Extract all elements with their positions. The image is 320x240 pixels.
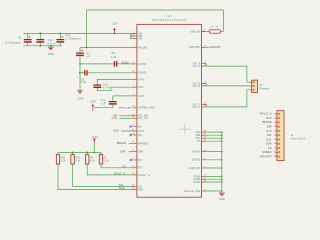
svg-text:PGND: PGND	[194, 176, 201, 178]
svg-text:SOC: SOC	[195, 138, 200, 140]
wire VIN pins link	[130, 33, 132, 38]
pin 4 GND_BK	[202, 167, 206, 169]
wire	[205, 64, 207, 67]
wire VCP	[113, 95, 134, 97]
junction	[221, 178, 223, 180]
junction	[221, 167, 223, 169]
wire	[205, 85, 206, 87]
svg-text:BRAKE: BRAKE	[138, 141, 148, 145]
svg-text:MCF8316A1VRGFR: MCF8316A1VRGFR	[152, 18, 187, 22]
capacitor C31	[56, 39, 64, 40]
resistor R6	[86, 155, 89, 164]
wire	[59, 33, 61, 39]
junction	[221, 131, 223, 133]
ground	[219, 193, 225, 195]
wire	[112, 96, 114, 101]
wire to gnd rail	[205, 140, 222, 142]
pin 25 FS	[133, 167, 137, 169]
wire CPL	[97, 87, 133, 91]
pin 7 SCL	[275, 139, 278, 141]
wire	[131, 35, 134, 37]
pin 36 AGND	[202, 151, 206, 153]
svg-text:uF: uF	[87, 54, 90, 58]
capacitor C10	[93, 84, 101, 85]
pin 8 SDA	[275, 143, 278, 145]
svg-text:GND: GND	[78, 96, 84, 100]
svg-text:+15V: +15V	[111, 22, 118, 26]
junction	[221, 137, 223, 139]
pin 41 Thermal_Pad	[202, 190, 206, 192]
pin 5 CLK	[275, 130, 278, 132]
pin 34 DIR	[133, 151, 137, 153]
pin 10 VIN	[133, 35, 137, 37]
wire OUT_C	[206, 90, 250, 107]
wire	[79, 48, 81, 53]
pin 11 DRVOFF	[275, 156, 278, 158]
wire	[131, 37, 134, 39]
pin 31 BRAKE	[133, 142, 137, 144]
svg-text:SOX: SOX	[113, 129, 119, 133]
wire CPH	[97, 80, 133, 85]
svg-text:EXT_CLK: EXT_CLK	[138, 118, 149, 120]
pin 3 FB_BK	[133, 47, 137, 49]
wire to gnd rail	[205, 167, 222, 169]
resistor R5	[99, 155, 102, 164]
pin 7 CPH	[133, 79, 137, 81]
svg-text:5.1k: 5.1k	[104, 159, 110, 163]
svg-text:FS: FS	[122, 164, 126, 168]
wire C11 to +15V	[93, 105, 113, 108]
wire	[86, 152, 88, 154]
pin 40 FAULT_A	[133, 174, 137, 176]
wire DRVOFF	[205, 46, 209, 48]
svg-text:AVDD: AVDD	[138, 62, 146, 66]
wire	[205, 63, 206, 65]
pin 3 BRAKE	[275, 121, 278, 123]
wire OUT_A	[206, 66, 250, 82]
pin 11 OUT_A	[202, 63, 206, 65]
svg-text:OUT_C: OUT_C	[192, 107, 200, 109]
svg-text:DRVOFF: DRVOFF	[260, 154, 272, 158]
pin 38 SDA	[133, 189, 137, 191]
junction	[50, 45, 52, 47]
wire	[39, 43, 41, 46]
pin 16 OUT_B	[202, 82, 206, 84]
capacitor C7	[76, 53, 84, 54]
pin 39 SCL	[133, 185, 137, 187]
wire to gnd rail	[205, 151, 222, 153]
wire	[205, 83, 207, 86]
wire R11 to IC	[58, 164, 133, 190]
svg-text:+15V: +15V	[89, 99, 96, 103]
junction	[221, 190, 223, 192]
svg-text:Thermal_Pad: Thermal_Pad	[183, 189, 200, 193]
pin 37 NC	[202, 140, 206, 142]
svg-text:1 uF: 1 uF	[100, 101, 106, 105]
wire	[93, 143, 95, 152]
pin 32 EXT_WD	[133, 115, 137, 117]
svg-text:PGND: PGND	[194, 179, 201, 181]
junction	[39, 33, 41, 35]
wire buck right	[223, 10, 225, 32]
junction	[79, 72, 81, 74]
pin 17 OUT_B	[202, 85, 206, 87]
wire to gnd rail	[205, 137, 222, 139]
capacitor C8	[114, 61, 115, 66]
wire	[72, 152, 74, 154]
junction	[221, 151, 223, 153]
svg-text:BRAKE: BRAKE	[117, 141, 127, 145]
connector J5 Phoenix	[252, 80, 258, 93]
svg-text:Phoenix: Phoenix	[260, 87, 270, 91]
wire OUT_B	[206, 85, 250, 87]
pin 6 CPL	[133, 86, 137, 88]
power +15V down	[92, 108, 94, 111]
no-connect	[130, 159, 132, 161]
svg-text:NC: NC	[197, 141, 201, 143]
svg-text:OUT_A: OUT_A	[193, 65, 201, 68]
pin 6 WD	[275, 134, 278, 136]
junction	[221, 181, 223, 183]
svg-text:5.1k: 5.1k	[90, 159, 96, 163]
svg-text:GND_BK: GND_BK	[189, 166, 201, 170]
pin 20 OUT_C	[202, 106, 206, 108]
ground	[77, 91, 83, 93]
wire AVDD right	[117, 63, 133, 65]
inductor L9	[209, 30, 221, 33]
svg-text:1 uF: 1 uF	[111, 55, 117, 59]
svg-text:U2: U2	[167, 14, 171, 18]
svg-text:SDA: SDA	[119, 186, 125, 190]
pin 21 NC	[133, 126, 137, 128]
wire	[100, 152, 102, 154]
svg-text:AGND: AGND	[192, 150, 200, 154]
wire R5 to IC	[101, 164, 133, 168]
svg-text:DVDD: DVDD	[138, 71, 146, 75]
wire	[27, 33, 29, 39]
pin 8 VCP	[133, 95, 137, 97]
wire FB_BK	[80, 47, 133, 49]
pin 13 OUT_A	[202, 65, 206, 67]
op-amp U1 IC U2 MCF8316A1VRGFR body	[137, 24, 202, 197]
junction	[130, 38, 131, 39]
wire	[57, 152, 59, 154]
resistor R10	[71, 155, 74, 164]
pin 2 SOX	[275, 117, 278, 119]
wire +3.3V rail	[58, 151, 101, 153]
pin 6 VIN	[133, 32, 137, 34]
junction	[59, 33, 61, 35]
junction	[221, 140, 223, 142]
pin 28 SPEED_ANA	[133, 107, 137, 109]
capacitor C9	[84, 70, 85, 75]
svg-text:SOB: SOB	[195, 135, 200, 137]
junction	[130, 35, 131, 36]
wire to gnd rail	[205, 131, 222, 133]
wire AVDD left	[80, 63, 114, 65]
svg-text:5.1k: 5.1k	[61, 159, 67, 163]
pin 33 EXT_CLK	[133, 117, 137, 119]
svg-text:C_Polarized: C_Polarized	[5, 40, 21, 44]
pin 9 FS	[275, 147, 278, 149]
pin 23 SOB	[202, 134, 206, 136]
svg-text:FAULT_A: FAULT_A	[138, 173, 150, 177]
wire	[205, 104, 207, 107]
wire gnd stub	[50, 46, 52, 47]
wire to gnd rail	[205, 178, 222, 180]
svg-text:CLK: CLK	[112, 116, 118, 120]
svg-text:OUT_B: OUT_B	[193, 86, 201, 88]
pin 19 OUT_C	[202, 103, 206, 105]
wire	[27, 43, 29, 46]
no-connect	[130, 125, 132, 127]
pin 12 PGND	[202, 175, 206, 177]
svg-text:PGND: PGND	[194, 182, 201, 184]
svg-text:DGND: DGND	[192, 158, 200, 162]
wire R6 to IC	[87, 164, 133, 175]
pin 21 SOC	[202, 137, 206, 139]
wire SOX	[121, 130, 133, 132]
junction	[221, 159, 223, 161]
wire	[39, 33, 41, 39]
svg-text:DRVOFF: DRVOFF	[189, 45, 201, 49]
junction	[221, 176, 223, 178]
no-connect	[130, 134, 132, 136]
svg-text:SOA: SOA	[195, 131, 200, 134]
pin 27 AVDD	[133, 63, 137, 65]
wire gnd rail	[24, 45, 63, 47]
power +15V	[114, 30, 116, 33]
svg-text:GND: GND	[48, 52, 54, 56]
wire to gnd rail	[205, 159, 222, 161]
svg-text:AVDD: AVDD	[121, 60, 128, 64]
pin 15 PGND	[202, 178, 206, 180]
wire VIN rail	[24, 32, 134, 34]
junction	[93, 152, 95, 154]
svg-text:FAULT_N: FAULT_N	[114, 172, 125, 175]
svg-text:SPEED_ANA: SPEED_ANA	[138, 106, 155, 110]
connector J3 Conn_01x11	[277, 111, 284, 161]
junction	[114, 33, 116, 35]
svg-text:NC: NC	[138, 158, 142, 162]
junction	[39, 45, 41, 47]
wire to gnd rail	[205, 190, 222, 192]
svg-text:DIR: DIR	[138, 150, 143, 154]
junction	[86, 152, 88, 154]
junction	[72, 152, 74, 154]
wire	[205, 82, 206, 84]
wire to gnd rail	[205, 134, 222, 136]
svg-text:SDA: SDA	[138, 188, 143, 191]
svg-text:FS: FS	[138, 166, 142, 170]
pin 22 NC	[133, 134, 137, 136]
wire DVDD right	[88, 72, 134, 74]
power +3.3V	[93, 140, 95, 143]
svg-text:GND: GND	[219, 197, 225, 201]
svg-text:VCP: VCP	[138, 94, 144, 98]
resistor R11	[56, 155, 59, 164]
svg-text:VIN: VIN	[138, 38, 142, 40]
wire	[205, 103, 206, 105]
pin 4 DIR	[275, 126, 278, 128]
capacitor C11	[109, 101, 117, 102]
wire buck top	[87, 9, 224, 11]
sheet crosshair marker	[179, 124, 191, 134]
wire DVDD left	[80, 72, 84, 74]
svg-text:FB_BK: FB_BK	[138, 45, 147, 49]
pin 1 FAULT_A	[275, 113, 278, 115]
pin 18 PGND	[202, 181, 206, 183]
pin 14 VIN	[133, 37, 137, 39]
wire	[206, 31, 209, 33]
svg-text:0.1 uF: 0.1 uF	[48, 41, 56, 45]
wire to gnd rail	[205, 181, 222, 183]
svg-text:C_Polarized: C_Polarized	[65, 36, 81, 40]
wire	[59, 43, 61, 46]
svg-text:5.1k: 5.1k	[75, 159, 81, 163]
svg-text:C6: C6	[18, 35, 22, 39]
svg-text:NC: NC	[138, 133, 142, 137]
wire	[221, 31, 224, 33]
pin 35 DRVOFF	[202, 46, 206, 48]
junction FB	[86, 47, 88, 49]
svg-text:47 nF: 47 nF	[103, 85, 110, 89]
wire DIR	[129, 151, 134, 153]
svg-text:+3.3V: +3.3V	[91, 135, 99, 139]
wire	[205, 106, 206, 108]
wire BRAKE	[129, 142, 134, 144]
svg-text:Conn_01x11: Conn_01x11	[291, 137, 306, 141]
svg-text:DRVOFF: DRVOFF	[210, 45, 221, 49]
wire R10 to IC	[73, 164, 134, 186]
wire	[205, 65, 206, 67]
svg-text:CPH: CPH	[138, 77, 144, 81]
svg-text:DIR: DIR	[120, 149, 125, 153]
pin 30 SOA	[202, 131, 206, 133]
svg-text:SCL: SCL	[138, 186, 143, 188]
wire to gnd rail	[205, 175, 222, 177]
ground	[48, 47, 54, 49]
capacitor C6	[24, 39, 32, 40]
wire buck down	[86, 10, 88, 48]
svg-text:NC: NC	[138, 124, 142, 128]
pin 10 SPEED	[275, 151, 278, 153]
pin 5 SW_BK stub	[202, 31, 207, 33]
svg-text:1 uF: 1 uF	[81, 80, 87, 84]
wire EXT_WD	[120, 115, 134, 117]
pin 24 DVDD	[133, 72, 137, 74]
pin 29 NC	[133, 159, 137, 161]
junction	[221, 134, 223, 136]
wire gnd column	[79, 57, 81, 91]
capacitor C32	[36, 39, 44, 40]
pin 2 DGND	[202, 159, 206, 161]
pin 5 SW_BK	[202, 31, 206, 33]
wire gnd rail right	[221, 132, 223, 193]
svg-text:SPEED_ANA: SPEED_ANA	[119, 107, 133, 110]
svg-text:SW_BK: SW_BK	[190, 29, 200, 33]
junction	[79, 63, 81, 65]
svg-text:CPL: CPL	[138, 85, 144, 89]
wire EXT_CLK	[120, 117, 134, 119]
pin 26 SOX	[133, 130, 137, 132]
